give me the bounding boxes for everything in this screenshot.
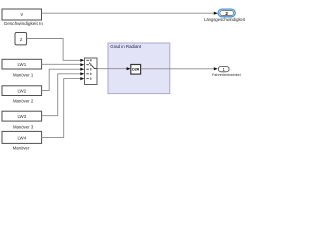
svg-text:Manöver 3: Manöver 3 [13,124,34,129]
outport 1 Fahrerlenkwinkel [212,66,241,77]
svg-text:2: 2 [20,37,23,42]
subsystem area Grad in Radiant [108,43,170,94]
multiport switch [85,58,98,85]
wire constant 2 to switch control port [27,39,84,62]
wire LW2 to switch port 3 [42,68,85,91]
wire switch to D2R [97,67,131,70]
svg-text:LW4: LW4 [17,135,26,140]
constant block 2 [15,33,27,45]
svg-text:Grad in Radiant: Grad in Radiant [110,44,142,49]
block LW4 (Manoever 4) [2,131,42,150]
svg-text:2: 2 [225,11,228,16]
wire LW1 to switch port 2 [42,63,85,66]
svg-text:Längsgeschwindigkeit: Längsgeschwindigkeit [204,17,246,22]
svg-text:Manöver 1: Manöver 1 [13,72,34,77]
svg-text:LW1: LW1 [17,62,26,67]
svg-text:Manöver 2: Manöver 2 [13,99,34,104]
wire D2R to Fahrerlenkwinkel outport [141,67,218,70]
wire LW4 to switch port 5 [42,77,85,137]
inport block v (Geschwindigkeit In) [2,9,43,26]
block LW2 (Manoever 2) [2,86,42,104]
svg-text:Fahrerlenkwinkel: Fahrerlenkwinkel [212,73,241,77]
svg-text:D2R: D2R [132,68,139,72]
block LW3 (Manoever 3) [2,111,42,129]
svg-text:LW3: LW3 [17,114,26,119]
outport 2 Laengsgeschwindigkeit [204,9,246,22]
gain block D2R (degrees to radians) [131,65,141,75]
wire LW3 to switch port 4 [42,72,85,116]
wire v to Laengsgeschwindigkeit outport [42,12,218,15]
svg-text:Geschwindigkeit In: Geschwindigkeit In [4,21,44,26]
svg-text:LW2: LW2 [17,89,26,94]
block LW1 (Manoever 1) [2,59,42,77]
svg-text:Manöver: Manöver [13,146,30,151]
